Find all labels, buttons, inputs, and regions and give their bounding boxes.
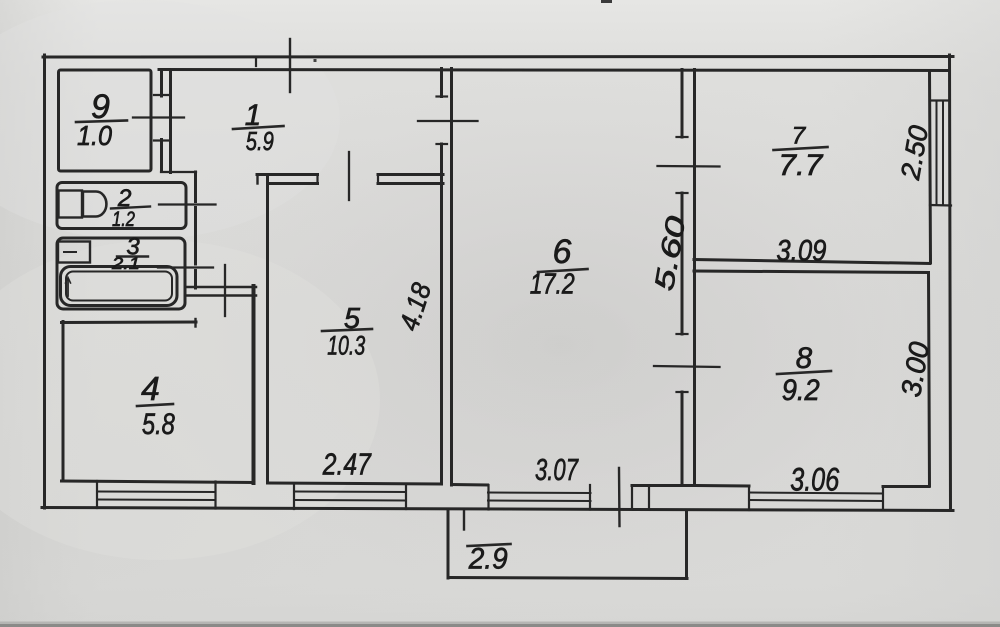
svg-text:3.06: 3.06 bbox=[790, 462, 839, 498]
svg-text:2.9: 2.9 bbox=[468, 543, 508, 576]
svg-text:7: 7 bbox=[792, 123, 807, 150]
svg-text:7.7: 7.7 bbox=[778, 149, 823, 182]
svg-text:8: 8 bbox=[796, 342, 813, 375]
svg-text:1.0: 1.0 bbox=[77, 120, 112, 151]
svg-text:4: 4 bbox=[141, 371, 160, 408]
svg-text:3.07: 3.07 bbox=[535, 452, 579, 487]
svg-text:6: 6 bbox=[553, 233, 572, 271]
svg-text:1.2: 1.2 bbox=[112, 208, 135, 231]
svg-text:3.09: 3.09 bbox=[776, 235, 826, 268]
svg-text:2.47: 2.47 bbox=[322, 447, 372, 482]
svg-text:10.3: 10.3 bbox=[327, 331, 365, 361]
svg-text:2.1: 2.1 bbox=[111, 254, 140, 273]
svg-text:9.2: 9.2 bbox=[782, 374, 820, 407]
svg-text:17.2: 17.2 bbox=[530, 269, 575, 301]
svg-text:5.9: 5.9 bbox=[246, 126, 274, 156]
svg-text:5.8: 5.8 bbox=[142, 408, 175, 441]
